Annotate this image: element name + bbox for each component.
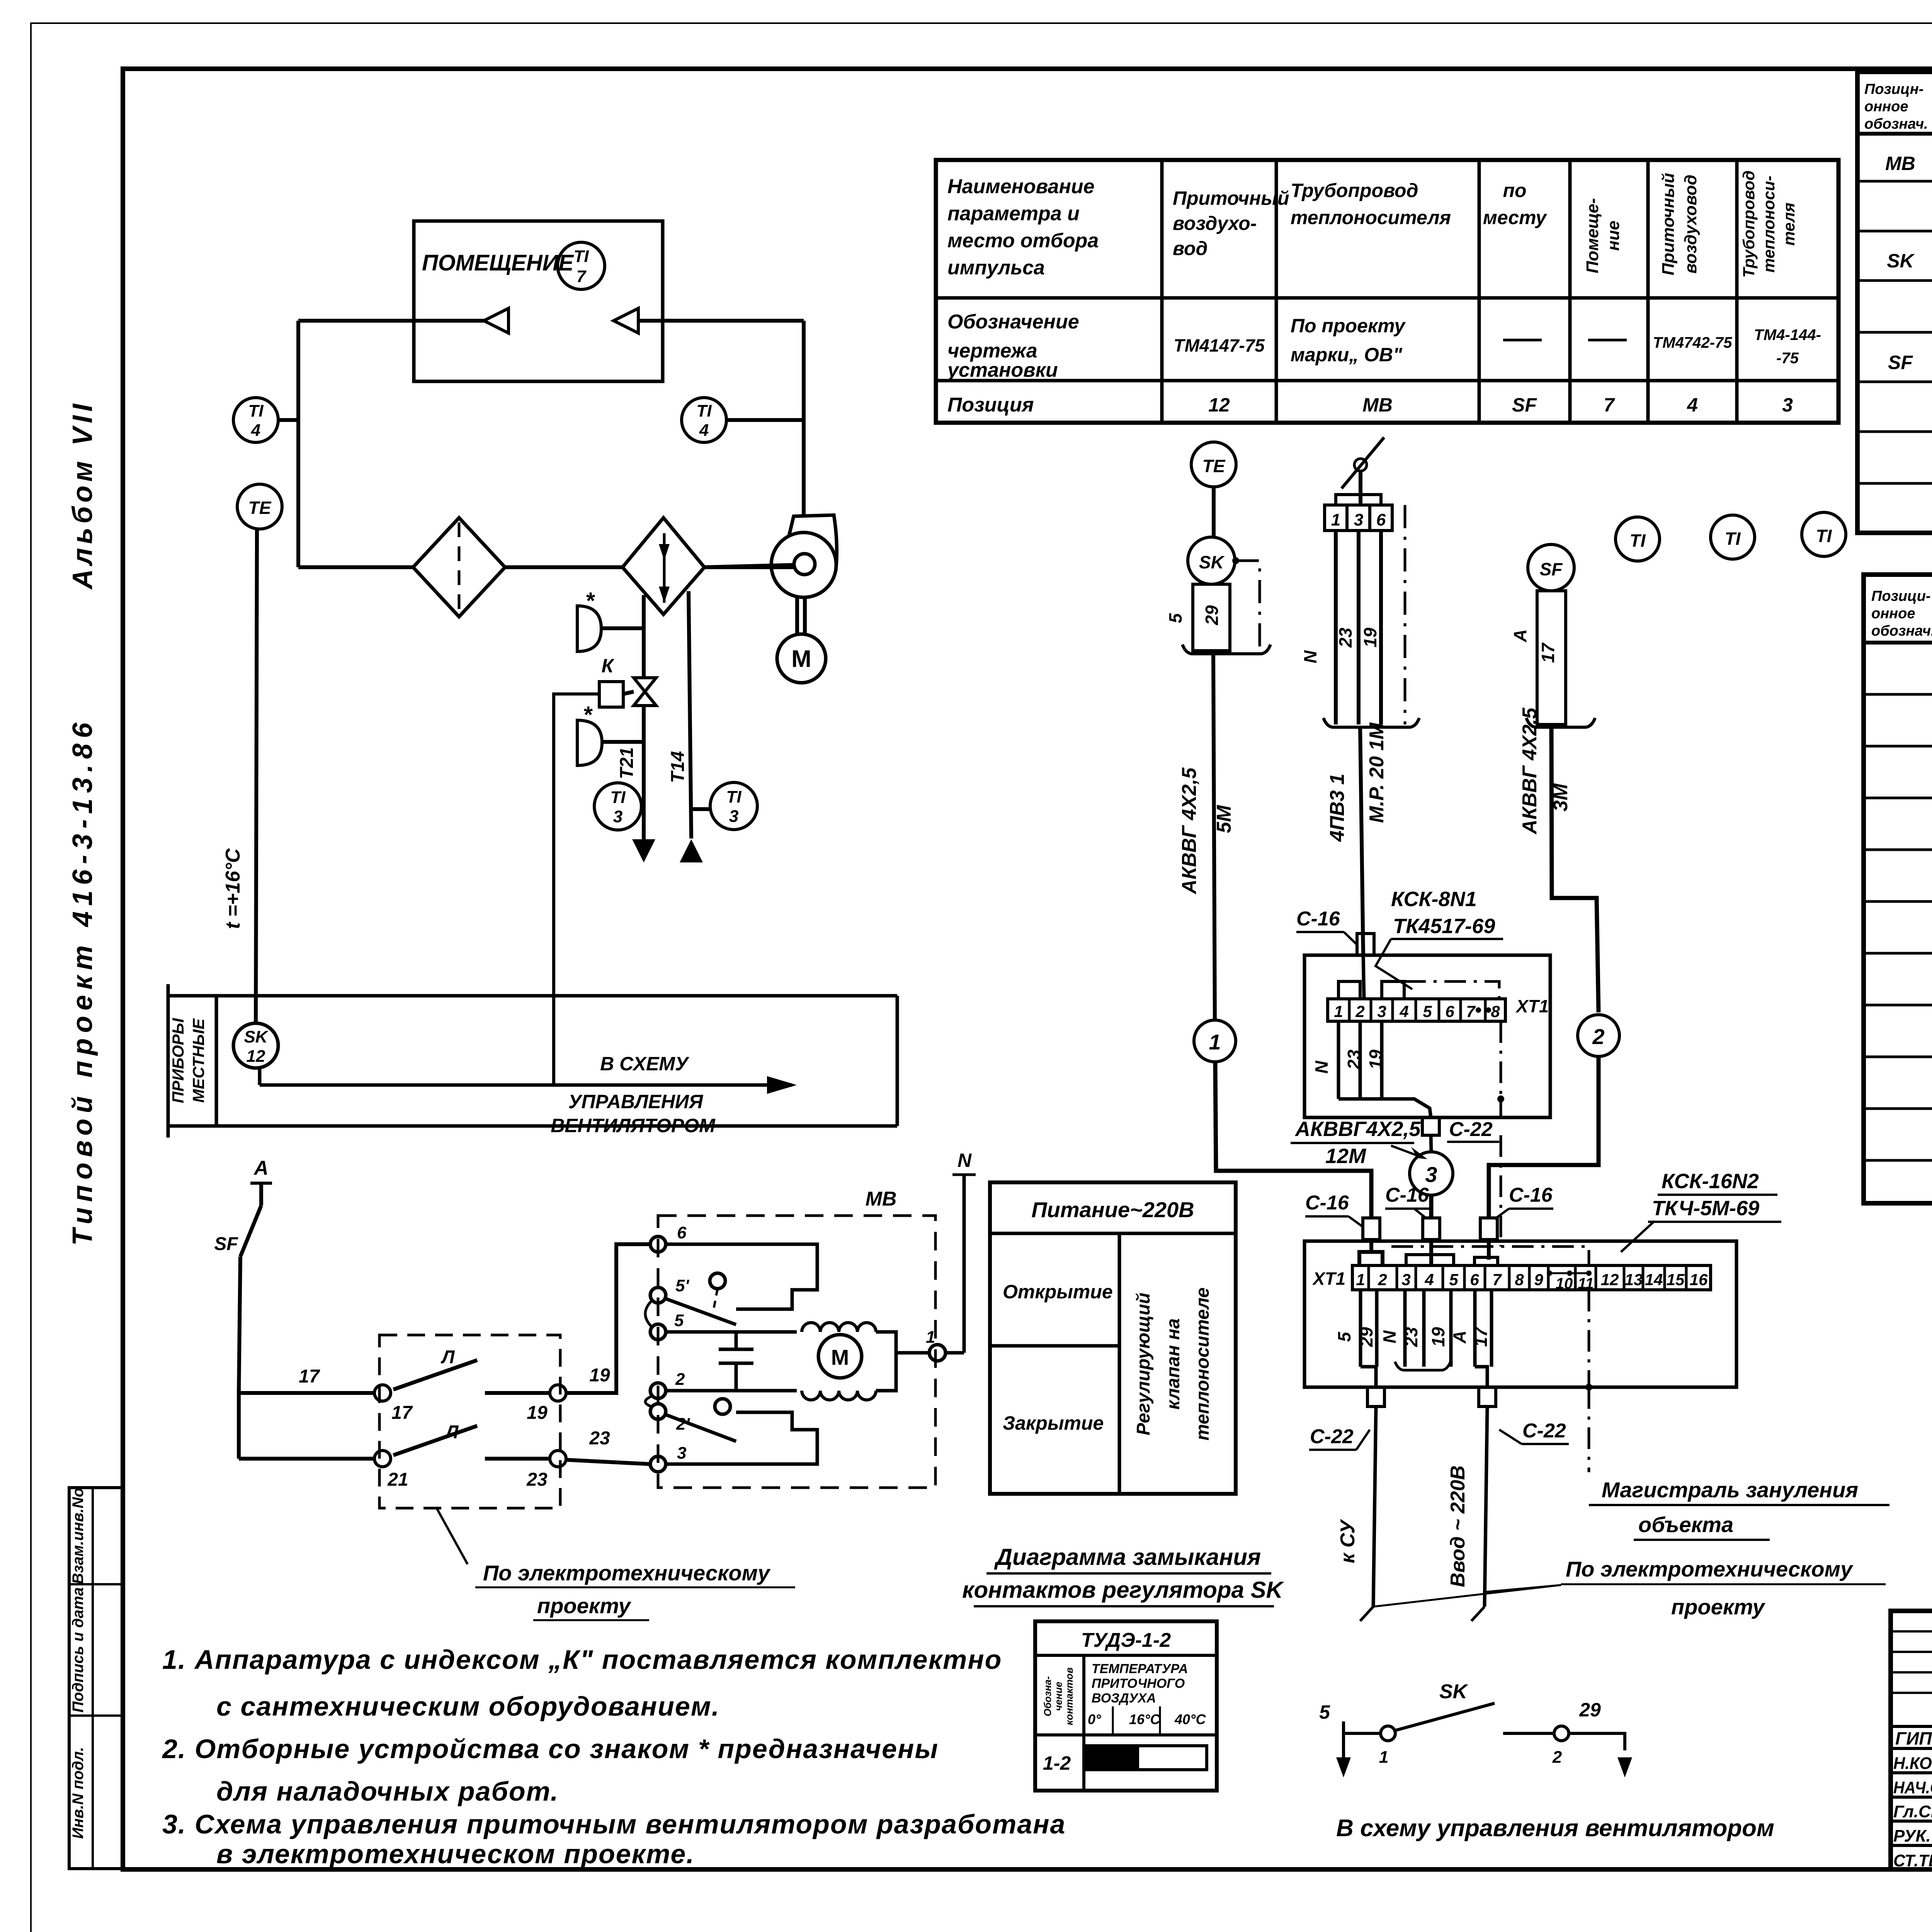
wire [726,418,804,422]
node [550,1451,566,1467]
svg-text:Магистраль зануления: Магистраль зануления [1602,1478,1858,1502]
svg-text:7: 7 [577,267,587,286]
svg-text:3: 3 [1354,510,1363,529]
svg-text:1: 1 [926,1328,935,1347]
wire [601,626,644,630]
wire [638,319,804,323]
wire to MB 6 [566,1244,650,1393]
wire [1569,1733,1625,1750]
motor M [818,1335,862,1378]
svg-text:по: по [1503,180,1526,201]
svg-text:6: 6 [1470,1270,1479,1289]
svg-text:5: 5 [1449,1270,1458,1289]
limit contact 2' blade [665,1414,736,1441]
wire left riser [296,321,300,567]
link arc 5'-5 [645,1301,651,1326]
contact Л blade [393,1360,477,1389]
svg-text:*: * [583,702,593,728]
terminal 5' [650,1287,666,1303]
svg-text:4ПВ3 1: 4ПВ3 1 [1326,774,1349,842]
svg-text:Помеще-: Помеще- [1583,198,1602,274]
svg-text:12: 12 [1208,394,1230,416]
svg-text:TI: TI [610,788,626,807]
svg-text:TI: TI [573,247,589,266]
name rows [1891,1725,1932,1728]
svg-text:контактов: контактов [1063,1667,1075,1725]
wire air duct upper [298,319,484,323]
wire TI3 right stub [691,807,710,811]
svg-text:Подпись и дата: Подпись и дата [70,1587,87,1713]
svg-text:Типовой проект 416-3-13.86: Типовой проект 416-3-13.86 [67,717,98,1246]
rung 17-19 wire [239,1391,375,1395]
terminal 6 [650,1236,666,1252]
motor M [777,634,826,683]
coil upper [802,1323,876,1332]
wire duct to fan hub [704,565,794,567]
diagram bar [1085,1746,1207,1770]
svg-text:3М: 3М [1549,783,1572,811]
wire 5 to motor [666,1330,797,1334]
svg-text:t =+16°C: t =+16°C [222,848,244,929]
svg-text:4: 4 [1424,1270,1434,1289]
svg-text:5: 5 [674,1311,684,1330]
TUDE-1-2 table [1035,1621,1217,1791]
svg-text:17: 17 [1471,1326,1491,1347]
jumpers above strip [1338,981,1360,999]
node circle 2 [1578,1015,1619,1056]
svg-text:АКВВГ 4Х2,5: АКВВГ 4Х2,5 [1178,767,1201,895]
device K (square) [599,682,623,707]
wire [278,418,298,422]
dash-dot ground from 8 [1500,1021,1502,1099]
svg-text:КСК-16N2: КСК-16N2 [1662,1170,1759,1193]
wire circle2 to KCK-16 gland [1489,1056,1599,1218]
wire to fan control arrow [258,1068,262,1085]
left margin vertical texts [67,400,123,1869]
svg-text:5: 5 [1423,1002,1432,1020]
svg-text:23: 23 [526,1469,548,1490]
svg-text:*: * [585,588,595,614]
svg-text:онное: онное [1871,605,1915,622]
fan shaft double line [795,597,799,634]
KCK-8 box [1304,955,1550,1117]
svg-text:3: 3 [1782,394,1793,416]
svg-text:теплоносителя: теплоносителя [1291,207,1451,228]
svg-text:3: 3 [1425,1162,1437,1187]
node 1 [1381,1726,1395,1741]
breaker SF blade [240,1206,261,1257]
svg-text:установки: установки [946,359,1058,381]
svg-text:19: 19 [1428,1327,1448,1347]
tap device 1 (dome) with asterisk [577,606,601,651]
svg-text:21: 21 [387,1469,408,1490]
svg-text:15: 15 [1667,1270,1685,1289]
svg-text:обознач.: обознач. [1871,623,1932,639]
wire left conductor [239,1257,240,1459]
bottom bracket [1182,645,1270,654]
dash-dot ground bus [1391,1247,1589,1265]
XT1 strip [1328,999,1505,1021]
svg-text:РУК. ГР.: РУК. ГР. [1893,1827,1932,1845]
svg-text:ВЕНТИЛЯТОРОМ: ВЕНТИЛЯТОРОМ [551,1115,716,1136]
svg-text:23: 23 [1401,1327,1421,1347]
svg-text:С-16: С-16 [1305,1192,1349,1214]
wire circle1 to KCK-16 gland [1215,1062,1371,1218]
svg-text:8: 8 [1491,1002,1500,1020]
filter (diamond) [413,518,505,617]
air duct main line [298,565,413,569]
wires below strip [1337,1021,1340,1099]
regulator SK [1188,537,1235,584]
svg-text:Т14: Т14 [668,751,688,783]
svg-text:ние: ние [1604,221,1623,251]
svg-text:3: 3 [1401,1270,1410,1289]
svg-text:5: 5 [1334,1332,1354,1342]
bottom bracket [1323,718,1419,727]
svg-text:11: 11 [1578,1275,1594,1292]
svg-text:ПОМЕЩЕНИЕ: ПОМЕЩЕНИЕ [422,250,574,276]
svg-text:7: 7 [1492,1270,1502,1289]
room box ПОМЕЩЕНИЕ [414,221,663,381]
svg-text:TI: TI [1816,526,1832,546]
svg-text:клапан на: клапан на [1163,1318,1184,1410]
dash-dot ground down inside box [1588,1290,1590,1387]
svg-text:МВ: МВ [1885,153,1915,174]
svg-text:N: N [1311,1061,1332,1074]
MB dashed box [658,1216,935,1488]
svg-text:ТМ4147-75: ТМ4147-75 [1173,335,1265,355]
cable 12m to circle 3 [1431,1135,1431,1152]
node 2 [1554,1726,1569,1741]
instrument TI3 right [710,782,757,830]
svg-text:ХТ1: ХТ1 [1515,996,1549,1016]
wire k SU [1373,1406,1376,1607]
svg-text:TI: TI [248,401,264,420]
svg-text:воздухо-: воздухо- [1173,213,1257,234]
terminal 5 [650,1324,666,1340]
cable 4PV3 down to KCK-8 [1360,727,1363,955]
wire to N [946,1351,964,1355]
svg-text:3: 3 [729,807,738,826]
svg-text:Обозначение: Обозначение [947,311,1079,333]
svg-text:марки„ ОВ": марки„ ОВ" [1291,344,1403,366]
svg-text:АКВВГ4Х2,5: АКВВГ4Х2,5 [1294,1117,1421,1141]
ground trunk dash-dot [1588,1387,1590,1472]
svg-text:импульса: импульса [947,257,1045,279]
svg-text:МВ: МВ [866,1188,897,1210]
stamp boxes [69,1488,123,1869]
svg-text:Гл.СПЕЦ: Гл.СПЕЦ [1893,1802,1932,1821]
leader to note [1373,1585,1561,1607]
svg-text:для наладочных работ.: для наладочных работ. [216,1776,559,1806]
svg-text:3: 3 [613,807,622,826]
gland C-16 [1357,934,1374,955]
wire [1344,1721,1380,1733]
svg-text:16: 16 [1690,1270,1708,1289]
svg-text:5: 5 [1319,1701,1330,1723]
svg-text:ТЕМПЕРАТУРА: ТЕМПЕРАТУРА [1092,1662,1188,1676]
svg-text:к СУ: к СУ [1337,1519,1359,1563]
svg-text:К: К [602,655,615,677]
svg-text:По электротехническому: По электротехническому [483,1561,771,1585]
svg-text:10: 10 [1556,1275,1573,1292]
terminal 2 [650,1383,666,1398]
svg-text:Л: Л [445,1422,459,1442]
glands C-16 x3 [1363,1218,1380,1240]
bottom bracket [1526,718,1595,727]
contact Л blade [393,1426,477,1455]
instrument TI7 [558,242,605,289]
svg-text:Позици-: Позици- [1871,588,1931,604]
svg-text:объекта: объекта [1638,1512,1733,1537]
instrument SK12 [233,1023,278,1068]
svg-text:TI: TI [1630,531,1646,551]
sensor TE [237,484,282,529]
instrument TI4 left [233,398,278,442]
svg-text:теплоноси-: теплоноси- [1760,175,1778,272]
wire TE down to SK12 [256,529,257,1023]
svg-text:Приточный: Приточный [1173,187,1289,209]
svg-text:2: 2 [675,1370,685,1389]
svg-text:14: 14 [1645,1270,1663,1289]
wire bottom collect [1338,1099,1431,1117]
wire [1212,487,1216,538]
jumper cells 3-5 [1406,1255,1454,1265]
svg-text:N: N [1300,650,1320,663]
svg-text:N: N [1379,1330,1400,1344]
svg-text:12: 12 [1601,1270,1619,1289]
svg-text:29: 29 [1202,605,1222,626]
svg-text:29: 29 [1356,1327,1376,1347]
cable AKVVG 3m to circle 2 [1551,727,1599,1012]
svg-text:контактов регулятора SK: контактов регулятора SK [962,1577,1284,1603]
svg-text:0°: 0° [1088,1711,1101,1727]
jumper cells 6-7 [1475,1257,1498,1265]
svg-text:Трубопровод: Трубопровод [1740,170,1758,278]
instrument TI4 right [682,398,726,442]
svg-text:По электротехническому: По электротехническому [1566,1557,1854,1581]
svg-text:Т21: Т21 [617,747,637,779]
svg-text:19: 19 [589,1365,610,1386]
svg-text:КСК-8N1: КСК-8N1 [1391,888,1477,911]
limit switch bracket top [666,1244,817,1309]
svg-text:A: A [253,1157,269,1179]
cable down to circle 1 [1213,654,1215,1020]
svg-text:с сантехническим оборудован: с сантехническим оборудованием. [216,1691,720,1721]
svg-text:ПРИТОЧНОГО: ПРИТОЧНОГО [1092,1676,1185,1691]
svg-text:TI: TI [1725,529,1741,549]
svg-text:Ввод ~ 220В: Ввод ~ 220В [1447,1465,1469,1587]
svg-text:19: 19 [1366,1049,1386,1070]
svg-text:3: 3 [677,1444,686,1463]
svg-text:АКВВГ 4Х2,5: АКВВГ 4Х2,5 [1519,707,1541,835]
svg-text:2: 2 [1355,1002,1364,1020]
svg-text:Инв.N подл.: Инв.N подл. [70,1747,87,1839]
svg-text:Открытие: Открытие [1003,1281,1113,1303]
instrument TI3 left [594,783,641,830]
node [550,1385,566,1401]
SK terminal box [1193,584,1230,651]
svg-text:теля: теля [1780,202,1798,246]
svg-text:7: 7 [1466,1002,1476,1020]
tap device 2 (dome) with asterisk [577,720,602,765]
svg-text:17: 17 [391,1403,413,1423]
node circle 3 [1410,1152,1453,1195]
svg-text:С-22: С-22 [1449,1118,1493,1141]
fan scroll [771,532,836,597]
wires below strip cells 3-5 [1403,1290,1407,1367]
dash-dot jumper to 8 [1404,981,1499,999]
svg-text:ГИП: ГИП [1895,1728,1932,1748]
heat pipe down from heater [642,595,646,678]
svg-text:13: 13 [1625,1270,1643,1289]
svg-text:1: 1 [1331,510,1340,529]
svg-text:TE: TE [248,498,272,518]
wire circle3 down [1429,1195,1434,1218]
svg-text:SF: SF [1888,352,1913,373]
svg-text:23: 23 [1335,628,1355,648]
svg-text:в электротехническом проекте: в электротехническом проекте. [216,1839,695,1869]
wire to node 1 [896,1351,929,1355]
svg-text:2. Отборные устройства со: 2. Отборные устройства со знаком * предн… [162,1734,939,1764]
dashed box around contacts [379,1335,560,1508]
svg-text:обознач.: обознач. [1864,116,1928,132]
svg-text:УПРАВЛЕНИЯ: УПРАВЛЕНИЯ [568,1091,704,1112]
svg-text:TE: TE [1202,456,1226,476]
svg-text:Н.КОНТР.: Н.КОНТР. [1893,1754,1932,1773]
thin revision rows top-left [1891,1630,1932,1633]
svg-text:С-22: С-22 [1522,1420,1566,1442]
T14 line [689,591,691,838]
svg-text:Обозна-: Обозна- [1042,1676,1053,1716]
wires below strip cells 6-7 [1473,1290,1477,1367]
rung 21-23 wire [239,1457,375,1461]
instrument TI pos4 [1711,515,1755,559]
svg-text:А: А [1510,629,1530,642]
jumper gland1 to cells 1-2 [1359,1240,1371,1265]
svg-text:-75: -75 [1776,350,1799,367]
svg-text:онное: онное [1864,99,1908,115]
svg-text:А: А [1449,1330,1469,1344]
svg-text:4: 4 [251,421,260,440]
svg-text:3: 3 [1377,1002,1386,1020]
heater (diamond) [622,518,704,614]
svg-text:Позицн-: Позицн- [1864,81,1923,97]
svg-text:По проекту: По проекту [1291,315,1406,337]
strip box [168,994,897,998]
svg-text:Закрытие: Закрытие [1003,1412,1104,1434]
svg-text:TI: TI [726,787,742,806]
svg-text:1: 1 [1379,1748,1388,1767]
svg-text:чение: чение [1053,1682,1064,1711]
svg-text:СТ.ТЕХН.: СТ.ТЕХН. [1893,1851,1932,1870]
leader line [437,1508,468,1564]
svg-text:M: M [791,646,811,672]
svg-text:НАЧ.ОТД.: НАЧ.ОТД. [1893,1778,1932,1797]
dash-dot loop from SK dot [1236,561,1260,651]
svg-text:19: 19 [1360,628,1380,648]
svg-text:С-16: С-16 [1385,1184,1429,1206]
link arc 2-2' [645,1396,651,1406]
arrow down right [1617,1757,1632,1777]
SK blade [1396,1703,1495,1730]
svg-text:ХТ1: ХТ1 [1312,1269,1345,1289]
breaker SF head [1528,544,1574,591]
terminal 3 [650,1456,666,1472]
svg-text:6: 6 [677,1223,687,1242]
svg-text:ТКЧ-5М-69: ТКЧ-5М-69 [1652,1197,1759,1220]
svg-text:SF: SF [214,1234,238,1254]
svg-text:SK: SK [1887,250,1915,272]
svg-text:SK: SK [1439,1680,1469,1703]
svg-text:6: 6 [1376,510,1386,529]
svg-text:2: 2 [1378,1270,1387,1289]
svg-text:ПРИБОРЫ: ПРИБОРЫ [169,1018,187,1103]
wire K square to strip [554,694,599,1085]
svg-text:8: 8 [1515,1270,1524,1289]
svg-text:5: 5 [1165,613,1185,623]
sensor TE [1191,442,1236,487]
coil lower [802,1391,876,1400]
svg-text:5М: 5М [1213,804,1235,833]
node 1 [929,1345,946,1361]
svg-text:1: 1 [1334,1002,1343,1020]
svg-text:16°С: 16°С [1129,1711,1160,1727]
flow arrow left [484,308,509,333]
wires below strip cells 1-2 [1359,1290,1362,1367]
dash-dot right of 6 [1404,505,1406,724]
limit switch bracket bottom [666,1412,817,1464]
svg-text:проекту: проекту [537,1594,632,1618]
svg-text:23: 23 [589,1428,610,1449]
wires below 1-3-6 [1334,531,1338,724]
flow arrow right [614,308,638,333]
svg-text:2: 2 [1592,1024,1604,1049]
node [374,1451,391,1467]
svg-text:2: 2 [1552,1748,1562,1767]
svg-text:17: 17 [299,1366,320,1387]
terminal 2' [650,1404,666,1419]
svg-text:SK: SK [1199,552,1225,572]
svg-text:7: 7 [1604,394,1615,416]
svg-text:M: M [831,1345,849,1369]
node [374,1385,391,1401]
svg-text:месту: месту [1483,207,1547,228]
svg-text:Приточный: Приточный [1659,173,1678,275]
instrument TI pos7 [1616,517,1660,561]
T14 arrow (filled up) [680,839,703,862]
svg-text:12: 12 [247,1047,265,1066]
svg-text:ТМ4742-75: ТМ4742-75 [1653,334,1732,351]
svg-text:N: N [957,1150,972,1171]
svg-text:вод: вод [1173,238,1207,259]
svg-text:Регулирующий: Регулирующий [1133,1293,1154,1435]
svg-text:проекту: проекту [1671,1595,1766,1619]
gland C-22 [1422,1117,1439,1135]
svg-text:ТУДЭ-1-2: ТУДЭ-1-2 [1081,1629,1171,1651]
svg-text:1: 1 [1209,1030,1221,1054]
T21 arrow (filled) [632,839,655,862]
svg-text:Питание~220В: Питание~220В [1031,1197,1194,1222]
wire [602,740,644,744]
svg-text:Наименование: Наименование [947,175,1095,198]
svg-text:1. Аппаратура с индексом „К" п: 1. Аппаратура с индексом „К" поставляетс… [162,1645,1002,1675]
svg-text:МВ: МВ [1362,394,1393,416]
svg-text:Л: Л [441,1347,455,1367]
svg-text:ТК4517-69: ТК4517-69 [1393,915,1495,938]
svg-text:М.Р. 20 1М: М.Р. 20 1М [1366,722,1388,823]
svg-text:4: 4 [1687,394,1698,416]
